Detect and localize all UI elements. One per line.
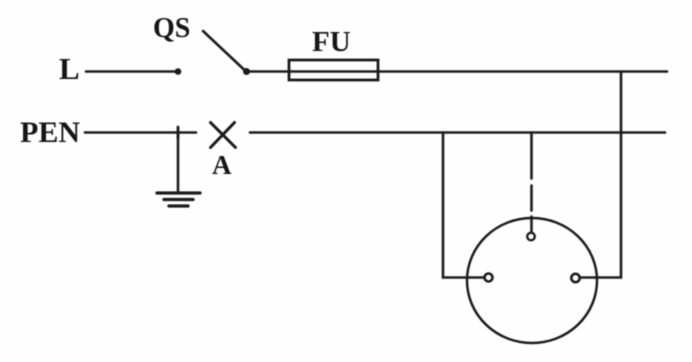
node switch pivot — [243, 68, 250, 75]
break point X at node A — [211, 123, 236, 148]
socket outline circle — [467, 218, 597, 343]
wire PEN line to right end — [250, 131, 665, 134]
wire pivot to fuse — [246, 70, 289, 73]
svg-text:PEN: PEN — [20, 116, 80, 149]
svg-text:QS: QS — [153, 13, 190, 44]
wire dashed earth pin drop — [530, 133, 533, 233]
svg-text:A: A — [212, 150, 232, 180]
switch QS blade — [203, 31, 245, 71]
wire ground drop — [177, 133, 180, 193]
fuse FU body — [289, 60, 378, 80]
wire PEN lead — [85, 131, 196, 134]
wire right drop from L line to socket right pin — [581, 72, 621, 278]
wire L line to right end — [378, 70, 667, 73]
pin right terminal — [571, 274, 579, 282]
wire L lead — [86, 70, 176, 73]
wire through fuse — [289, 70, 378, 73]
svg-text:FU: FU — [312, 26, 351, 58]
pin earth terminal — [527, 233, 535, 241]
node ground tap junction — [177, 127, 180, 138]
wire left drop from PEN to socket left pin — [443, 133, 484, 278]
node switch fixed contact — [175, 68, 182, 75]
pin left terminal — [485, 274, 493, 282]
ground — [157, 193, 200, 206]
svg-text:L: L — [59, 51, 80, 86]
